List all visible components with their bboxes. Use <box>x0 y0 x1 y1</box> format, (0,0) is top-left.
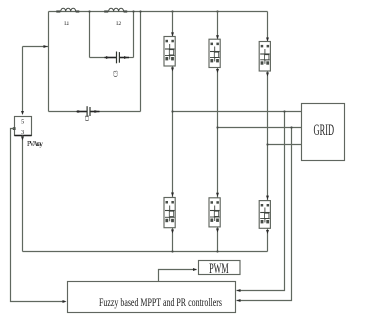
wire bottom bus <box>23 251 268 253</box>
wire leg1 bottom drop <box>172 228 174 252</box>
wire C3 right vertical <box>133 12 135 58</box>
wire left vertical from bus to C1 rail <box>48 12 50 112</box>
wire leg2 mid <box>217 68 219 198</box>
transistor S6 (bottom leg3 IGBT/diode) <box>259 201 270 229</box>
PV array block <box>15 117 32 137</box>
svg-text:C3: C3 <box>114 71 120 78</box>
wire leg2 upper drop <box>217 12 219 40</box>
wire C3 left vertical <box>89 12 91 58</box>
wire controller to PWM <box>159 270 197 282</box>
wire C1 bottom rail <box>49 111 88 113</box>
svg-text:GRID: GRID <box>314 122 335 139</box>
svg-text:C1: C1 <box>85 115 91 122</box>
wire leg1 mid <box>172 66 174 198</box>
wire phase B to grid <box>218 127 302 129</box>
wire C3 rail <box>90 57 117 59</box>
wire feedback B down to controller right input <box>237 128 292 301</box>
transistor S3 (top leg3 IGBT/diode) <box>259 42 270 72</box>
wire right vertical from C1 rail to bus <box>140 12 142 112</box>
transistor S1 (top leg1 IGBT/diode) <box>164 37 175 67</box>
wire leg3 mid <box>267 71 269 201</box>
transistor S2 (top leg2 IGBT/diode) <box>209 39 220 67</box>
wire leg3 bottom drop <box>267 228 269 251</box>
capacitor C3 <box>105 52 130 64</box>
wire leg1 upper drop <box>172 12 174 37</box>
wire PV plus to bus-left junction <box>23 46 49 48</box>
svg-text:L2: L2 <box>116 21 121 27</box>
svg-text:Fuzzy based MPPT and PR contro: Fuzzy based MPPT and PR controllers <box>99 295 222 309</box>
wire leg3 upper drop <box>267 12 269 42</box>
wire top bus <box>49 11 268 13</box>
wire PV minus riser down <box>22 136 24 252</box>
inductor L1 <box>56 8 79 12</box>
inductor L2 <box>104 8 127 12</box>
controller block Fuzzy based MPPT and PR controllers <box>68 282 236 313</box>
capacitor C1 <box>77 106 100 117</box>
wire phase A to grid <box>173 111 302 113</box>
svg-text:3: 3 <box>21 129 24 136</box>
PWM block <box>199 261 241 277</box>
node junction dots on top bus <box>88 10 90 12</box>
svg-text:L1: L1 <box>64 21 69 27</box>
transistor S5 (bottom leg2 IGBT/diode) <box>209 198 220 227</box>
GRID block <box>302 104 345 161</box>
svg-text:PWM: PWM <box>209 261 229 277</box>
wire phase C to grid <box>268 144 302 146</box>
wire feedback A down to controller right input <box>237 112 285 291</box>
transistor S4 (bottom leg1 IGBT/diode) <box>164 198 175 228</box>
wire leg2 bottom drop <box>217 227 219 252</box>
svg-text:5: 5 <box>21 119 24 126</box>
wire PV measurement to controller left input <box>13 127 16 130</box>
svg-text:PV Array: PV Array <box>27 140 44 148</box>
